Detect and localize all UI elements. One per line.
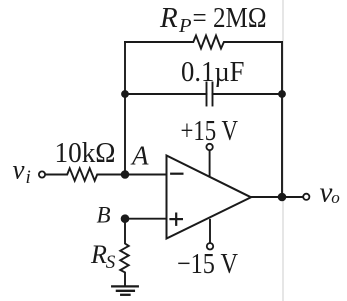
svg-text:B: B (97, 203, 111, 228)
svg-text:R: R (159, 2, 178, 34)
svg-text:o: o (331, 188, 340, 207)
svg-text:i: i (26, 167, 31, 188)
svg-text:v: v (13, 155, 25, 185)
svg-text:A: A (130, 141, 149, 171)
svg-text:R: R (90, 240, 107, 269)
svg-text:−15 V: −15 V (177, 248, 238, 280)
svg-text:S: S (106, 252, 116, 273)
svg-text:P: P (178, 15, 192, 37)
svg-text:+15 V: +15 V (181, 115, 239, 147)
svg-text:10kΩ: 10kΩ (55, 137, 116, 169)
svg-text:= 2MΩ: = 2MΩ (193, 2, 267, 34)
svg-text:0.1µF: 0.1µF (181, 56, 245, 88)
